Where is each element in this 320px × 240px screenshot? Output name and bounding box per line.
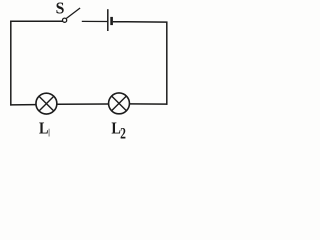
switch S (open) <box>63 8 81 22</box>
svg-text:2: 2 <box>120 125 126 142</box>
lamp L2 <box>109 93 130 114</box>
wire: bottom, left corner to lamp L1 <box>10 104 35 106</box>
lamp L1 <box>36 93 57 114</box>
wire: top, left corner to switch pivot <box>10 20 63 22</box>
wire: left vertical <box>10 21 12 106</box>
wire: bottom, right corner to lamp L2 <box>130 103 168 105</box>
svg-text:S: S <box>56 0 65 18</box>
wire: right vertical <box>166 22 168 105</box>
wire: switch to battery <box>82 20 108 22</box>
label L1 <box>39 118 49 137</box>
svg-text:L: L <box>39 118 49 137</box>
label L2 <box>111 118 126 142</box>
wire: battery to top-right corner <box>113 21 168 23</box>
wire: between lamps L1 and L2 <box>57 103 108 105</box>
battery B1 <box>108 9 112 31</box>
